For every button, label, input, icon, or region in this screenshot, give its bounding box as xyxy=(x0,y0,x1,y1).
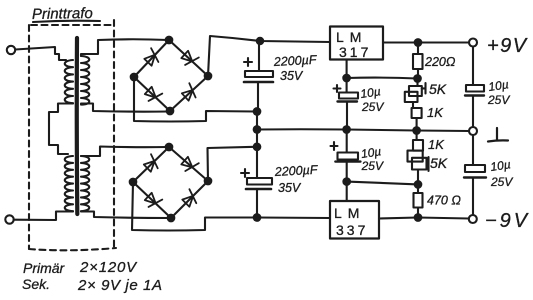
wire U2 out xyxy=(379,218,469,219)
svg-text:337: 337 xyxy=(336,222,368,238)
svg-text:LM: LM xyxy=(336,29,367,45)
svg-text:10µ: 10µ xyxy=(487,77,509,94)
secondary winding 2 xyxy=(81,156,89,211)
regulator U2 LM337 xyxy=(330,201,379,239)
wire adj1 to divider xyxy=(347,77,417,80)
diode D8 xyxy=(182,189,196,207)
node adj1 xyxy=(343,75,350,82)
svg-text:2×120V: 2×120V xyxy=(79,259,138,276)
svg-text:317: 317 xyxy=(339,44,371,60)
capacitor C3 10u xyxy=(334,78,385,130)
node B2 left xyxy=(130,179,137,186)
regulator U1 LM317 xyxy=(330,27,383,61)
svg-text:25V: 25V xyxy=(490,175,513,189)
terminal input top xyxy=(7,46,15,54)
wire B1 minus output to center column xyxy=(134,77,256,122)
transformer dashed box xyxy=(29,20,116,250)
node center A xyxy=(254,108,261,115)
wire AC4 (sec2 bottom to bridge2 bottom) xyxy=(81,212,170,219)
svg-text:2200µF: 2200µF xyxy=(272,53,318,69)
node B1 left xyxy=(131,74,138,81)
svg-text:1K: 1K xyxy=(427,105,444,120)
svg-text:LM: LM xyxy=(334,205,365,221)
node B1 bottom xyxy=(167,108,174,115)
wire adj2 line xyxy=(347,182,418,185)
node divider2 xyxy=(415,181,422,188)
svg-text:35V: 35V xyxy=(278,181,302,195)
wire B1 plus output to top rail xyxy=(208,36,330,76)
resistor R3 1K xyxy=(413,131,445,153)
svg-text:35V: 35V xyxy=(280,69,304,83)
node B2 right xyxy=(205,178,212,185)
transformer core xyxy=(75,38,80,214)
terminal 0V xyxy=(469,127,477,135)
diode D6 xyxy=(181,157,199,171)
node rail junction E xyxy=(257,38,263,44)
diode D1 xyxy=(144,48,158,65)
resistor R4 470 xyxy=(414,184,462,217)
svg-text:470 Ω: 470 Ω xyxy=(427,194,461,208)
node B2 bottom xyxy=(168,215,175,222)
wire AC1 top (sec1 top to bridge1 top) xyxy=(81,39,168,56)
primary winding 1 xyxy=(65,60,73,103)
capacitor C5 10u out+ xyxy=(465,47,510,128)
wire 0V rail xyxy=(257,129,469,131)
secondary winding 1 xyxy=(81,56,89,105)
node B2 top xyxy=(166,144,173,151)
primary winding 2 xyxy=(65,156,73,211)
node divider1 xyxy=(414,75,421,82)
svg-text:5K: 5K xyxy=(430,155,448,171)
wire U1 adj xyxy=(346,60,348,79)
bridge rectifier B1 xyxy=(131,37,212,115)
wire center B-C xyxy=(256,130,258,147)
wire AC3 (sec2 top to bridge2 top) xyxy=(81,147,168,157)
svg-text:1K: 1K xyxy=(428,137,445,152)
wire primary series link xyxy=(49,104,73,155)
node adj2 xyxy=(343,178,350,185)
node center C xyxy=(254,144,261,151)
svg-text:220Ω: 220Ω xyxy=(424,55,456,69)
wire U1 out xyxy=(383,41,469,43)
svg-text:5K: 5K xyxy=(429,81,447,97)
node center B (0V) xyxy=(254,126,261,133)
ground symbol xyxy=(488,128,508,142)
svg-text:2× 9V je 1A: 2× 9V je 1A xyxy=(77,277,163,294)
diode D2 xyxy=(181,51,199,65)
capacitor C2 2200uF xyxy=(241,147,319,218)
diode D3 xyxy=(145,87,163,101)
capacitor C1 2200uF xyxy=(244,41,318,111)
potentiometer P1 5K xyxy=(405,79,447,109)
diode D7 xyxy=(145,193,163,207)
svg-text:25V: 25V xyxy=(361,159,384,173)
diode D5 xyxy=(144,154,158,172)
svg-text:Primär: Primär xyxy=(23,260,66,276)
svg-text:25V: 25V xyxy=(361,100,384,114)
label Printtrafo xyxy=(32,5,100,23)
bridge rectifier B2 xyxy=(130,144,212,222)
wire B2 plus output to center column xyxy=(208,147,257,181)
svg-text:−9V: −9V xyxy=(485,210,530,232)
node R1 top xyxy=(415,39,422,46)
wire B2 minus output to bottom rail xyxy=(132,182,256,231)
svg-text:25V: 25V xyxy=(487,93,510,107)
node 0V mid xyxy=(343,126,350,133)
resistor R1 220 xyxy=(413,43,456,79)
terminal +9V xyxy=(469,39,477,47)
node 0V divider xyxy=(413,127,420,134)
wire input top xyxy=(15,47,66,60)
node B1 top xyxy=(166,37,173,44)
wire AC2 (sec1 bottom to bridge1 bottom) xyxy=(81,104,169,112)
capacitor C4 10u xyxy=(331,130,384,182)
capacitor C6 10u out- xyxy=(464,135,513,215)
svg-text:2200µF: 2200µF xyxy=(273,163,319,179)
terminal input bottom xyxy=(5,215,13,223)
wire -V rail to U2 xyxy=(257,216,330,219)
node out2 xyxy=(415,214,422,221)
potentiometer P2 5K xyxy=(408,151,448,185)
node B1 right xyxy=(205,73,212,80)
svg-text:10µ: 10µ xyxy=(359,84,381,101)
diode D4 xyxy=(182,83,196,101)
wire U2 adj xyxy=(346,182,348,201)
svg-text:Sek.: Sek. xyxy=(22,276,50,292)
terminal -9V xyxy=(469,215,477,223)
wire input bottom xyxy=(14,212,73,221)
svg-text:+9V: +9V xyxy=(487,35,528,57)
wire center A-B xyxy=(256,112,258,130)
resistor R2 1K xyxy=(412,105,445,131)
node center D (-V) xyxy=(254,214,261,221)
svg-text:10µ: 10µ xyxy=(489,157,511,174)
